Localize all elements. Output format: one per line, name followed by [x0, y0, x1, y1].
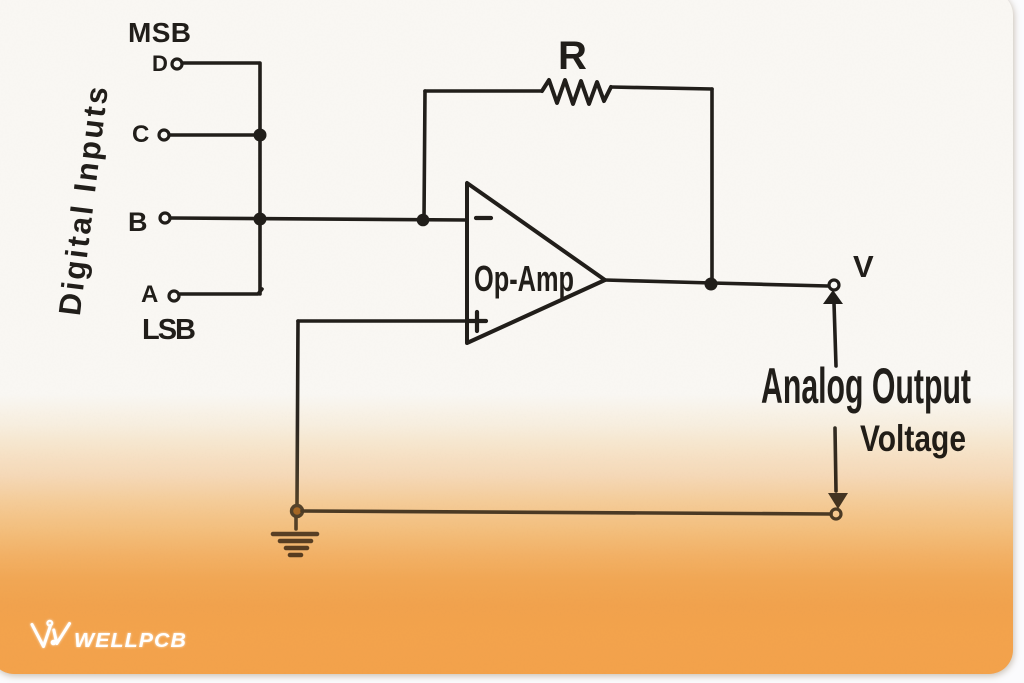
wire feedback top right [611, 87, 712, 89]
wire output vertical upper [834, 303, 836, 366]
wire B input to op-amp inverting input [171, 218, 467, 220]
op-amp U1 [467, 183, 605, 343]
wire feedback top left [425, 89, 542, 93]
junction bus-B [254, 213, 267, 226]
wire feedback left vertical [424, 91, 425, 220]
wire op-amp output [605, 280, 828, 286]
wire feedback right vertical [710, 89, 714, 284]
junction bus-C [254, 129, 267, 142]
logo W mark [32, 621, 70, 647]
terminal C [159, 130, 169, 140]
terminal D [172, 59, 182, 69]
wire bus vertical [258, 63, 262, 294]
arrowhead up [823, 290, 843, 304]
terminal B [160, 213, 170, 223]
resistor R [542, 80, 611, 104]
wire C input to bus [170, 133, 256, 137]
wire D input to bus [183, 61, 259, 65]
terminal output bottom [831, 509, 841, 519]
ground symbol [273, 534, 317, 555]
wire A input to bus [180, 289, 262, 294]
junction feedback tap [417, 214, 430, 227]
junction output-feedback [705, 278, 718, 291]
wire output vertical lower [835, 428, 836, 491]
ground stub [294, 517, 298, 529]
terminal A [169, 291, 179, 301]
svg-text:WELLPCB: WELLPCB [74, 630, 187, 652]
minus sign inverting input [476, 216, 491, 220]
wire bottom return [302, 511, 831, 514]
wire ground vertical [297, 321, 298, 505]
plus sign non-inverting input [469, 312, 486, 331]
junction ground node [292, 506, 303, 517]
arrowhead down [828, 493, 848, 509]
wire ground horizontal to plus input [298, 319, 467, 323]
terminal V output [829, 280, 839, 290]
